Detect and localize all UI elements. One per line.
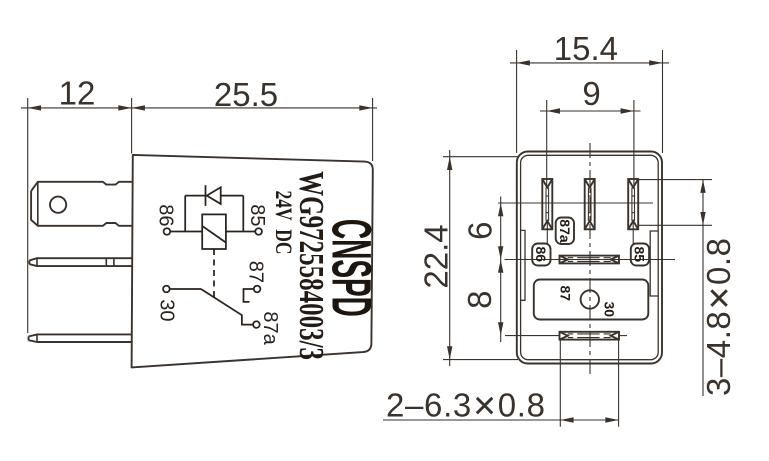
center hole — [581, 290, 599, 308]
ext line top — [638, 179, 712, 181]
blade A center stub — [546, 221, 548, 244]
diode D1 cathode bar — [205, 185, 207, 206]
label plate 87a — [556, 218, 574, 245]
pin 1 hole — [50, 197, 66, 213]
dim 9 line — [540, 110, 641, 112]
dim 22.4 extension top — [443, 156, 518, 158]
relay body (side view) — [132, 155, 373, 368]
terminal 86 circle — [164, 228, 171, 235]
wire coil to 85 — [226, 231, 256, 233]
pin 2 chamfer line — [36, 258, 38, 266]
blade C (pin 85 blade) — [628, 179, 638, 229]
coil diagonal — [202, 226, 226, 243]
svg-text:8: 8 — [461, 291, 498, 309]
svg-text:22.4: 22.4 — [418, 224, 455, 288]
dim line — [702, 180, 704, 396]
terminal 85 circle — [255, 228, 262, 235]
ext line left — [559, 340, 561, 427]
arrow 12 left — [28, 105, 41, 110]
svg-text:15.4: 15.4 — [554, 30, 618, 67]
right wall recess — [650, 231, 658, 296]
svg-text:86: 86 — [155, 204, 177, 226]
wire 86 to coil — [170, 231, 202, 233]
dim 15.4 extension right — [662, 50, 664, 153]
svg-text:30: 30 — [156, 299, 178, 321]
diode branch left vertical — [184, 196, 186, 232]
blade row center line middle — [505, 259, 676, 261]
diode top wire right — [221, 195, 244, 197]
dim 9 extension right — [633, 100, 635, 188]
pin 3 thin blade — [29, 334, 133, 342]
dim 15.4 extension left — [516, 50, 518, 153]
svg-text:3–4.8✕0.8: 3–4.8✕0.8 — [700, 238, 737, 396]
svg-text:85: 85 — [246, 204, 268, 226]
svg-text:86: 86 — [533, 247, 549, 263]
coil K1 — [202, 214, 226, 249]
dim 6/8 line — [500, 197, 502, 343]
svg-text:2–6.3✕0.8: 2–6.3✕0.8 — [386, 387, 545, 424]
arrow 25.5 left — [132, 105, 145, 110]
blade C center stub — [632, 221, 634, 244]
arrow 12 right — [118, 105, 131, 110]
svg-text:25.5: 25.5 — [214, 76, 278, 113]
middle blade (pin 30 blade) — [560, 256, 620, 264]
svg-text:12: 12 — [59, 75, 96, 112]
label plate 86 — [532, 244, 550, 266]
ext line bottom — [638, 224, 712, 226]
dimension 12/25.5 shared dimension line — [21, 107, 377, 109]
extension line at body right edge — [372, 98, 374, 161]
label plate 85 — [631, 244, 649, 266]
left wall recess — [521, 230, 525, 300]
svg-text:87a: 87a — [557, 219, 573, 243]
ext line right — [618, 340, 620, 427]
pin 3 chamfer line — [36, 334, 38, 342]
blade B (pin 87a blade) — [585, 179, 595, 229]
center panel — [534, 280, 649, 320]
svg-text:85: 85 — [631, 247, 647, 263]
blade A (pin 86 blade) — [542, 179, 552, 229]
bottom blade (pin 87 blade) — [560, 332, 620, 340]
outer case — [517, 152, 662, 364]
svg-text:9: 9 — [582, 75, 600, 112]
pin 1 shoulder line — [37, 182, 39, 226]
arrow 25.5 right — [359, 105, 372, 110]
terminal 87a circle — [253, 321, 260, 328]
terminal 30 circle — [163, 286, 170, 293]
pin 1 big blade outline — [31, 182, 132, 226]
dim 9 extension left — [546, 100, 548, 188]
wire 30 to pivot — [170, 288, 202, 290]
switch arm — [201, 289, 253, 325]
svg-text:87: 87 — [245, 261, 267, 283]
contact 87 hook — [244, 289, 254, 302]
svg-text:6: 6 — [461, 222, 498, 240]
svg-text:CNSPD: CNSPD — [320, 219, 382, 317]
dim 15.4 line — [510, 62, 669, 64]
dimension 12 extension line left — [27, 98, 29, 333]
pin 2 thin blade — [29, 258, 132, 266]
dim 22.4 line — [449, 150, 451, 366]
extension line at body left edge — [131, 98, 133, 154]
blade row center line top — [498, 202, 653, 204]
inner case wall — [521, 155, 659, 359]
blade row center line bottom right — [619, 335, 627, 337]
blade row center line bottom left — [505, 335, 560, 337]
dim/leader line — [383, 419, 619, 421]
svg-text:30: 30 — [602, 302, 618, 318]
svg-text:87: 87 — [558, 286, 574, 302]
pin 2 crimp ticks — [105, 258, 107, 266]
coil actuation dashed link — [213, 249, 215, 297]
diode D1 triangle — [207, 187, 221, 204]
diode top wire left — [185, 195, 205, 197]
dim 22.4 extension bottom — [443, 359, 518, 361]
svg-text:87a: 87a — [259, 311, 281, 345]
center line vertical — [589, 143, 591, 375]
terminal 87 circle — [254, 286, 261, 293]
diode branch right vertical — [242, 196, 244, 232]
